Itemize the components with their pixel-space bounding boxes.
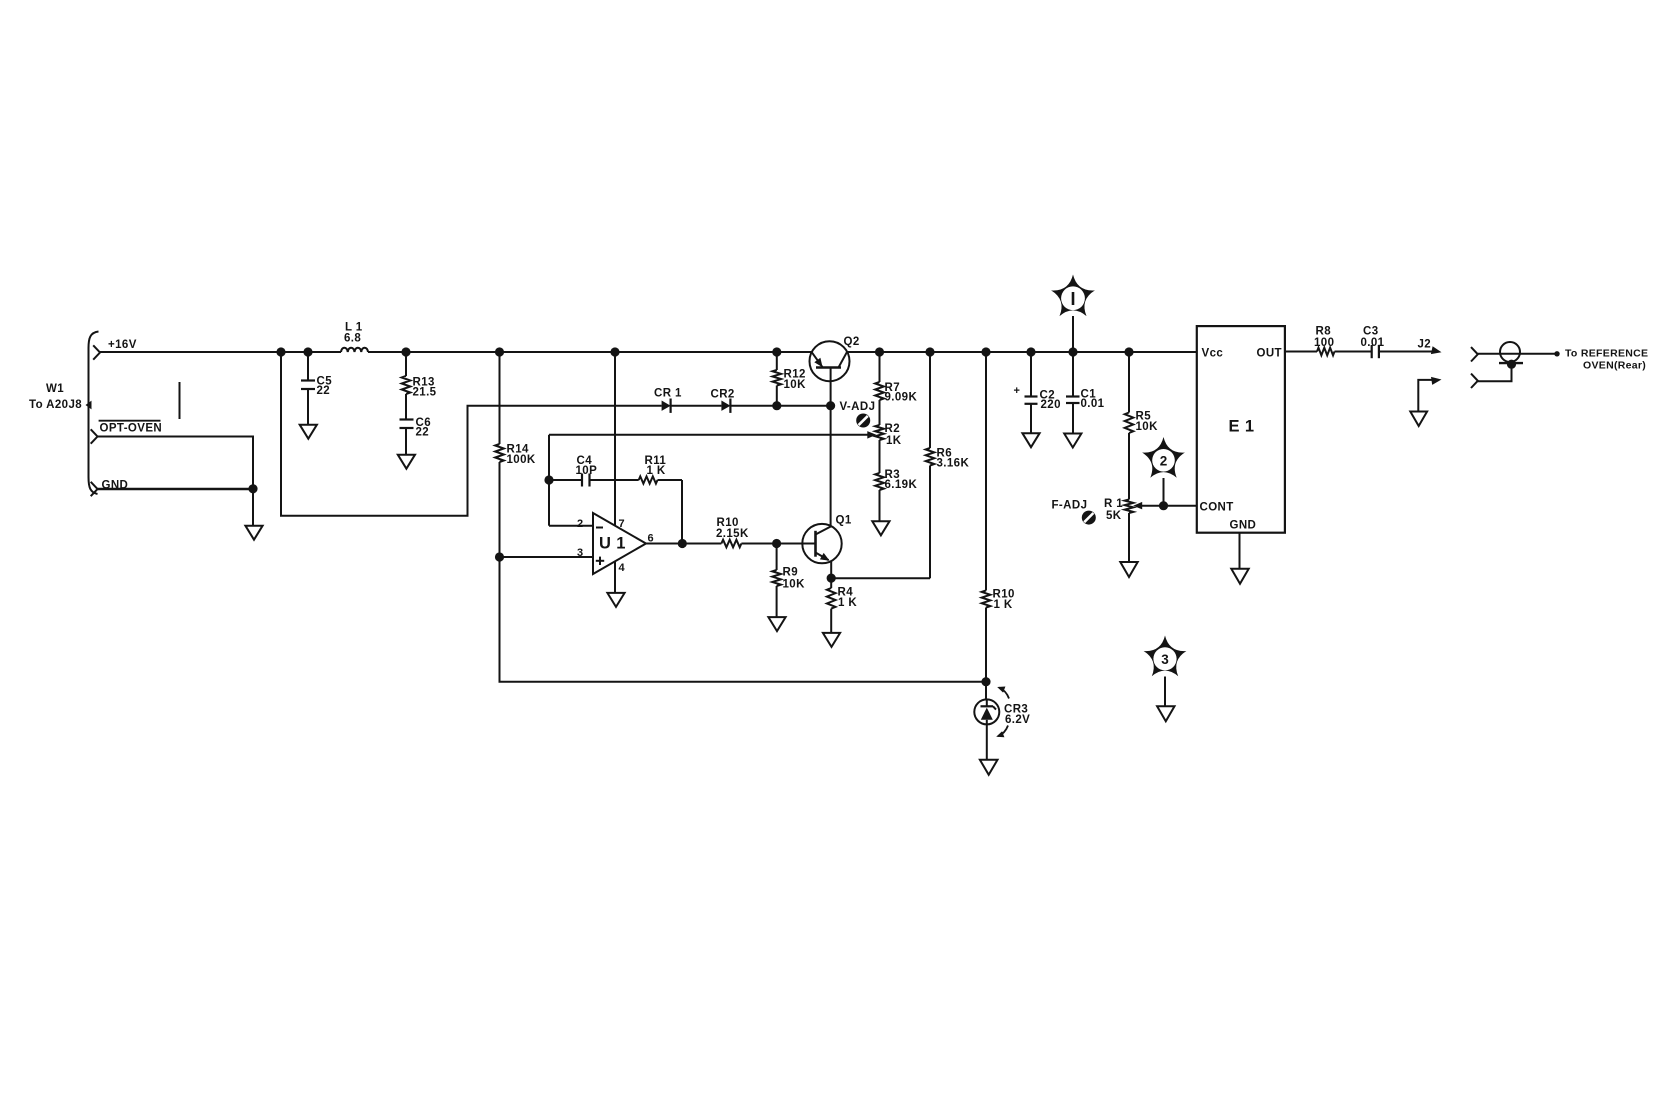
svg-text:0.01: 0.01 [1081,398,1105,410]
wire E1 GND pin [1239,533,1241,569]
ground (E1) [1231,569,1248,584]
resistor R7 [875,352,917,425]
resistor R3 [875,469,917,521]
node U1 pin3 junction [495,552,504,561]
svg-text:9.09K: 9.09K [885,392,918,404]
svg-text:10P: 10P [576,465,598,477]
transistor Q1 [802,515,852,579]
svg-text:OPT-OVEN: OPT-OVEN [100,423,163,435]
svg-text:CR 1: CR 1 [654,388,682,400]
svg-text:R8: R8 [1316,326,1332,338]
svg-text:22: 22 [317,385,331,397]
wire +16V rail left segment [100,351,812,353]
potentiometer R2 [875,423,902,473]
node CR3 junction [981,677,990,686]
svg-text:1K: 1K [886,435,902,447]
node output junction [678,539,687,548]
op-amp U1 [577,513,654,574]
flag note 2 [1142,437,1185,506]
svg-text:3: 3 [1161,652,1169,667]
ground (C5) [300,425,317,439]
svg-text:Q2: Q2 [844,336,860,348]
spare pin mark of W1 [179,382,181,419]
ground (J2 return) [1410,412,1427,427]
svg-text:2: 2 [1160,453,1168,468]
svg-text:2: 2 [577,518,584,530]
ground (C2) [1022,433,1039,447]
svg-text:To REFERENCE: To REFERENCE [1565,348,1648,360]
svg-text:U 1: U 1 [599,535,626,553]
node rail R7 tap [875,347,884,356]
svg-text:+: + [1014,385,1021,397]
connector W1 bracket [86,332,99,495]
capacitor C2 [1014,352,1061,433]
wire feedback vertical [548,435,550,526]
wire to Q1 base [777,543,816,545]
capacitor C4 [549,455,639,487]
svg-text:3.16K: 3.16K [937,458,970,470]
svg-text:6.8: 6.8 [344,333,361,345]
regulator module E1 [1197,326,1285,533]
node rail C5 tap [303,347,312,356]
node rail R13 tap [401,347,410,356]
resistor R6 [926,352,970,578]
wire feedback to output [681,480,683,544]
pin GND of W1 [91,480,129,497]
node rail R14 tap [495,347,504,356]
resistor R11 [639,455,682,484]
flag note 3 [1144,636,1187,707]
wire E1 OUT [1285,351,1317,353]
svg-text:C3: C3 [1363,326,1379,338]
pin J2-B chevron [1471,374,1478,388]
ground (R1/R5) [1120,562,1137,577]
ground (W1 GND) [245,526,262,540]
svg-text:V-ADJ: V-ADJ [840,401,876,413]
resistor R8 [1314,326,1372,356]
wire CR1 to CR2 [671,405,722,407]
pin +16V of W1 [93,339,137,360]
wire U1 output [646,543,721,545]
ground (R9) [768,617,785,631]
svg-text:To A20J8: To A20J8 [29,399,82,411]
resistor R14 [495,352,536,557]
ground (C1) [1064,434,1081,448]
svg-text:10K: 10K [1136,421,1159,433]
svg-text:W1: W1 [46,383,64,395]
capacitor C6 [400,417,432,455]
ground (flag 3) [1157,706,1174,721]
node rail U1-V+ tap [610,347,619,356]
resistor R5 [1125,352,1158,500]
inductor L1 [341,322,368,353]
transistor Q2 [810,336,860,406]
node Q1 emitter junction [827,574,836,583]
wire U1 pin4 to ground [614,561,616,593]
resistor R10 1K [982,352,1015,682]
wire GND pin [98,488,254,490]
svg-text:6.19K: 6.19K [885,479,918,491]
svg-text:GND: GND [1230,520,1257,532]
diode CR2 [711,389,735,413]
node rail R12 tap [772,347,781,356]
resistor R9 [772,544,805,618]
resistor R4 [827,578,857,633]
svg-text:4: 4 [619,562,626,574]
ground (C6) [398,455,415,469]
svg-text:21.5: 21.5 [413,387,437,399]
diode CR1 [654,388,682,413]
svg-text:2.15K: 2.15K [716,528,749,540]
node rail R10-1K tap [981,347,990,356]
node feedback junction [544,475,553,484]
svg-text:R 1: R 1 [1104,498,1123,510]
wire +16V rail right segment [847,351,1197,353]
svg-text:10K: 10K [783,579,806,591]
svg-text:1 K: 1 K [838,597,857,609]
wire non-inverting input to CR3 node [500,557,987,682]
screwdriver adjust V-ADJ [856,414,870,428]
svg-text:+16V: +16V [108,339,137,351]
capacitor C5 [301,352,332,425]
svg-text:Vcc: Vcc [1202,348,1224,360]
node flag2 junction [1159,501,1168,510]
svg-text:7: 7 [619,518,626,530]
select arrow lower (CR3) [996,726,1008,738]
node rail R6 tap [925,347,934,356]
svg-text:OVEN(Rear): OVEN(Rear) [1583,360,1646,372]
pin OPT-OVEN of W1 [91,421,162,444]
svg-text:OUT: OUT [1257,348,1282,360]
svg-text:CONT: CONT [1200,502,1234,514]
svg-text:F-ADJ: F-ADJ [1052,500,1088,512]
wire U1 pin7 supply [614,352,616,526]
pin J2-A chevron [1471,347,1478,361]
wire OPT-OVEN to ground [98,437,254,526]
svg-text:E 1: E 1 [1229,418,1255,436]
svg-text:R9: R9 [783,567,799,579]
svg-text:100K: 100K [507,454,536,466]
svg-text:5K: 5K [1106,510,1122,522]
node rail R5 tap [1124,347,1133,356]
arrow J2 output pin [1431,346,1442,354]
capacitor C1 [1066,352,1105,434]
flag note 1 [1051,275,1095,353]
node rail C1/flag1 tap [1068,347,1077,356]
wire R2 wiper to U1 pin2 node [549,431,876,439]
wire Q2 base to Q1 collector [830,406,832,527]
svg-text:220: 220 [1041,399,1061,411]
svg-text:100: 100 [1314,337,1334,349]
node rail C2 tap [1026,347,1035,356]
potentiometer R1 [1104,498,1133,562]
label To REFERENCE OVEN(Rear) [1565,348,1648,372]
wire CR2 to base node [730,405,830,407]
node OPT-OVEN/GND junction [248,484,257,493]
resistor R13 [402,352,437,420]
svg-text:0.01: 0.01 [1361,337,1385,349]
select arrow upper (CR3) [997,687,1009,699]
node rail loop tap [276,347,285,356]
svg-text:22: 22 [416,427,430,439]
svg-text:6.2V: 6.2V [1005,714,1030,726]
zener diode CR3 [974,682,1030,760]
wire R1 wiper to CONT [1133,502,1197,510]
ground (U1 pin4) [607,593,624,607]
screwdriver adjust F-ADJ [1082,511,1096,525]
node Q1 base junction [772,539,781,548]
feedthrough capacitor at J2 [1478,342,1523,381]
node V-ADJ junction R12 [772,401,781,410]
capacitor C3 [1361,326,1433,359]
resistor R12 [773,352,807,406]
svg-text:1 K: 1 K [994,599,1013,611]
wire U1 pin3 input [500,556,594,558]
svg-text:1 K: 1 K [647,465,666,477]
node V-ADJ junction Q2 base [826,401,835,410]
svg-text:CR2: CR2 [711,389,735,401]
wire J2 to reference oven [1478,351,1560,356]
wire R6 to Q1 emitter [831,577,930,579]
svg-text:R2: R2 [885,423,901,435]
ground (CR3) [980,760,998,775]
wire +16V loop to CR1 [281,352,662,516]
svg-text:J2: J2 [1418,339,1432,351]
resistor R10 2.15K [716,517,777,547]
svg-text:Q1: Q1 [836,515,852,527]
svg-text:10K: 10K [784,379,807,391]
arrow J2 return pin [1418,377,1441,412]
ground (R4) [823,633,840,647]
ground (R3) [872,521,889,535]
wire U1 pin2 input [549,525,593,527]
